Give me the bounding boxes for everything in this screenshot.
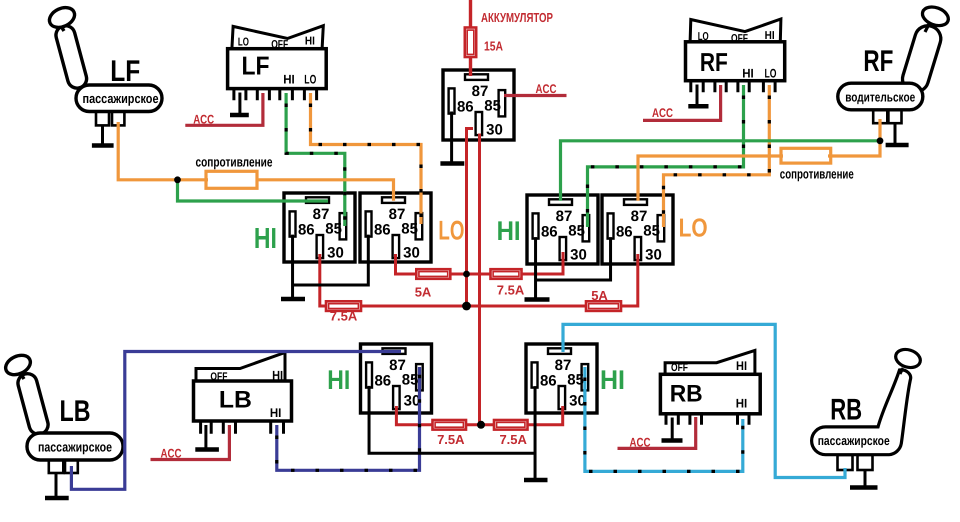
node B junction RF — [877, 137, 884, 144]
fuse F7 7.5A — [494, 420, 528, 430]
svg-text:85: 85 — [643, 222, 660, 239]
wire K5 pin30 to K6 pin30 — [396, 406, 562, 425]
ground seat RF — [894, 123, 897, 145]
wire LF seat feed (orange) — [118, 122, 208, 180]
switch SW4 RB pins — [666, 414, 678, 425]
svg-text:HI: HI — [305, 36, 315, 48]
svg-text:86: 86 — [540, 372, 557, 389]
wire ACC RB — [618, 417, 696, 448]
seat LF (passenger front) — [46, 4, 162, 126]
wire battery to relay 87 — [469, 56, 472, 76]
svg-text:водительское: водительское — [845, 90, 915, 105]
svg-text:HI: HI — [765, 30, 775, 42]
svg-text:86: 86 — [298, 221, 315, 238]
switch SW1 LF pins — [234, 89, 246, 101]
ground switch RF — [696, 85, 699, 107]
ground switch LB — [204, 425, 207, 450]
svg-text:15A: 15A — [484, 39, 503, 54]
switch SW3 LB body — [194, 381, 292, 421]
node junction upper — [463, 271, 470, 278]
switch SW1 LF rocker — [232, 26, 323, 49]
switch SW4 RB body — [660, 374, 760, 414]
node junction lower — [462, 302, 471, 311]
svg-text:7.5A: 7.5A — [437, 432, 465, 447]
wire junction to K3 pin87 (green) — [561, 141, 881, 201]
svg-text:сопротивление: сопротивление — [196, 154, 273, 169]
relay K4 right LO — [602, 195, 673, 264]
svg-text:LO: LO — [679, 213, 708, 243]
relay K1 left HI — [284, 193, 355, 262]
resistor R1 (сопротивление) — [206, 171, 257, 188]
svg-text:OFF: OFF — [271, 39, 288, 51]
node battery (АККУМУЛЯТОР) — [469, 0, 472, 29]
svg-text:30: 30 — [486, 122, 503, 139]
switch SW4 RB rocker — [665, 350, 755, 374]
wire RF seat feed (orange) — [828, 119, 880, 156]
svg-text:85: 85 — [325, 220, 342, 237]
svg-text:OFF: OFF — [731, 33, 748, 45]
svg-text:7.5A: 7.5A — [497, 283, 525, 298]
svg-text:85: 85 — [567, 371, 584, 388]
svg-text:7.5A: 7.5A — [330, 309, 358, 324]
svg-text:LO: LO — [304, 72, 316, 86]
ground relay U1 pin86 — [450, 112, 453, 164]
svg-text:RB: RB — [830, 394, 862, 427]
wire K1 pin30 to bus — [320, 254, 638, 306]
wire LF LO to K2 pin85 (orange) — [311, 93, 422, 224]
svg-text:ACC: ACC — [536, 82, 557, 96]
svg-text:LB: LB — [219, 387, 252, 414]
svg-text:HI: HI — [270, 406, 282, 420]
svg-text:OFF: OFF — [671, 362, 688, 374]
svg-text:86: 86 — [457, 98, 474, 115]
switch SW3 LB rocker — [196, 353, 285, 382]
svg-text:RF: RF — [700, 47, 728, 77]
svg-text:HI: HI — [497, 216, 521, 246]
wire resistor to K2 pin87 (orange) — [256, 180, 394, 201]
switch SW2 RF pins — [691, 81, 703, 93]
switch SW2 RF rocker — [690, 19, 781, 42]
fuse F5 5A — [586, 301, 621, 311]
wire ACC RF — [643, 85, 721, 120]
svg-text:86: 86 — [374, 372, 391, 389]
switch SW3 LB pins — [201, 421, 212, 434]
svg-text:ACC: ACC — [161, 447, 182, 461]
svg-text:ACC: ACC — [630, 436, 651, 450]
svg-text:5A: 5A — [591, 288, 608, 303]
wire RB HI to K6 pin85 (cyan) — [585, 367, 743, 471]
wire junction to K1 pin87 (green) — [178, 180, 329, 201]
relay K2 left LO — [360, 193, 431, 262]
svg-text:HI: HI — [742, 66, 754, 80]
wire LB HI to K5 pin85 (blue) — [277, 367, 420, 470]
svg-text:85: 85 — [402, 371, 419, 388]
seat LB (rear passenger) — [2, 352, 123, 473]
svg-text:ACC: ACC — [652, 106, 673, 120]
resistor R2 (сопротивление) — [781, 148, 831, 163]
svg-text:RF: RF — [863, 45, 893, 78]
svg-text:HI: HI — [736, 359, 747, 373]
svg-text:86: 86 — [541, 223, 558, 240]
ground seat RB — [864, 470, 867, 488]
svg-text:LO: LO — [765, 66, 777, 80]
wire K2 pin30 to bus — [396, 252, 564, 274]
svg-text:пассажирское: пассажирское — [38, 440, 112, 455]
fuse F6 7.5A — [433, 420, 467, 430]
svg-text:АККУМУЛЯТОР: АККУМУЛЯТОР — [481, 10, 553, 25]
switch SW1 LF body — [228, 49, 327, 89]
node junction bottom — [477, 421, 485, 429]
svg-text:RB: RB — [670, 381, 703, 408]
seat RF (driver) — [838, 4, 951, 124]
relay U1 battery relay — [443, 70, 514, 140]
svg-text:30: 30 — [403, 245, 420, 262]
ground K3/K4 pin86 — [534, 237, 537, 299]
ground switch LF — [238, 93, 241, 116]
svg-text:5A: 5A — [415, 285, 432, 300]
wire LF HI to K1 pin85 (green) — [286, 93, 345, 226]
node A junction LF — [174, 176, 181, 183]
wire ACC to U1 pin85 — [504, 94, 567, 97]
fuse F3 7.5A — [491, 269, 522, 279]
svg-text:HI: HI — [283, 72, 295, 86]
wire U1 pin30 branch A — [467, 129, 474, 306]
svg-text:30: 30 — [327, 245, 344, 262]
ground switch RB — [671, 418, 674, 441]
wire U1 pin30 branch B — [478, 134, 481, 425]
wire LB seat to K5 pin87 (blue) — [71, 352, 401, 490]
ground K1/K2 pin86 — [291, 235, 294, 299]
switch SW2 RF body — [686, 42, 785, 81]
svg-text:HI: HI — [254, 223, 277, 255]
fuse F2 5A — [416, 269, 450, 279]
wire RB seat to K6 pin87 (cyan) — [563, 324, 845, 477]
svg-text:30: 30 — [404, 393, 421, 410]
svg-text:LO: LO — [438, 216, 464, 246]
svg-text:сопротивление: сопротивление — [780, 167, 854, 182]
svg-text:HI: HI — [272, 369, 283, 383]
wire RF LO to K4 pin85 (orange) — [664, 85, 770, 227]
svg-text:7.5A: 7.5A — [499, 432, 527, 447]
svg-text:LO: LO — [238, 36, 249, 48]
fuse F4 7.5A — [326, 301, 361, 311]
svg-text:HI: HI — [736, 396, 748, 410]
svg-text:LB: LB — [60, 395, 91, 428]
svg-text:пассажирское: пассажирское — [818, 433, 890, 448]
svg-text:86: 86 — [374, 221, 391, 238]
svg-text:85: 85 — [484, 97, 501, 114]
wire ACC LB — [151, 425, 230, 460]
svg-text:OFF: OFF — [210, 371, 227, 383]
svg-text:86: 86 — [616, 223, 633, 240]
svg-text:LF: LF — [242, 51, 270, 81]
svg-text:LF: LF — [110, 55, 140, 88]
fuse F1 15A — [465, 28, 476, 58]
wire ACC LF — [185, 93, 263, 125]
seat RB (rear passenger) — [812, 347, 923, 470]
svg-text:ACC: ACC — [193, 112, 214, 126]
ground seat LF — [101, 125, 104, 145]
svg-text:пассажирское: пассажирское — [83, 91, 159, 106]
ground seat LB — [55, 473, 58, 498]
svg-text:30: 30 — [645, 247, 662, 264]
relay K5 rear-left HI — [361, 344, 432, 413]
svg-text:LO: LO — [698, 31, 709, 43]
ground K5/K6 pin86 — [369, 386, 535, 453]
svg-text:85: 85 — [568, 222, 585, 239]
svg-text:HI: HI — [327, 365, 350, 395]
svg-text:HI: HI — [600, 365, 625, 395]
wire RF HI to K3 pin85 (green) — [588, 85, 744, 227]
relay K6 rear-right HI — [526, 344, 597, 413]
wire resistor to K4 pin87 (orange) — [638, 156, 783, 201]
relay K3 right HI — [527, 195, 598, 264]
svg-text:30: 30 — [570, 247, 587, 264]
svg-text:85: 85 — [401, 220, 418, 237]
